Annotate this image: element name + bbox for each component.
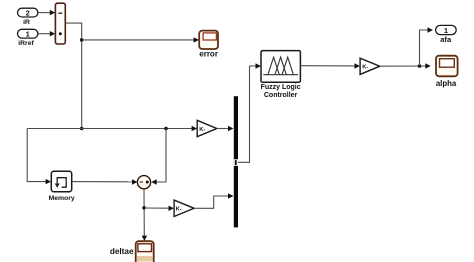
junction [164, 127, 168, 131]
svg-text:Memory: Memory [49, 195, 75, 202]
wire Gain2 to Mux [194, 193, 233, 208]
wire Sum1 output down to deltae [142, 189, 147, 241]
svg-text:K-: K- [176, 207, 182, 213]
wire down to Memory [27, 129, 51, 185]
scope error [199, 31, 218, 49]
wire Mux to Fuzzy Logic Controller [238, 63, 261, 162]
wire iR to Add [38, 10, 55, 15]
svg-text:Fuzzy Logic: Fuzzy Logic [261, 84, 301, 91]
wire iRref to Add [38, 31, 55, 36]
input port 2 (iR) [18, 8, 38, 17]
junction [80, 127, 84, 131]
block Fuzzy Logic Controller [261, 51, 300, 83]
gain Gain3 [360, 58, 380, 74]
wire Memory to Sum1 [72, 179, 137, 184]
wire Gain1 to Mux [217, 126, 234, 131]
svg-text:Controller: Controller [264, 92, 298, 99]
svg-text:1: 1 [444, 26, 448, 35]
wire main horizontal to Gain1 [27, 126, 197, 131]
wire FLC to Gain3 [300, 63, 360, 68]
wire down to Sum1 right input [151, 129, 166, 185]
wire to error scope [82, 37, 199, 42]
svg-text:K-: K- [199, 127, 205, 133]
block Memory [51, 171, 71, 191]
wire Add output [65, 23, 81, 128]
svg-text:alpha: alpha [436, 79, 457, 88]
wire up to afa port [420, 27, 433, 66]
svg-text:afa: afa [440, 35, 452, 44]
svg-text:K-: K- [362, 65, 368, 71]
input port 1 (iRref) [18, 29, 38, 38]
sum block Add [55, 3, 65, 44]
gain Gain1 [197, 120, 217, 136]
junction [142, 206, 146, 210]
scope deltae [136, 241, 154, 262]
label Fuzzy Logic Controller [261, 84, 301, 99]
scope alpha [436, 56, 458, 77]
svg-text:deltae: deltae [110, 247, 134, 256]
wire to Gain2 [144, 206, 174, 211]
mux Mux [234, 96, 238, 227]
junction [418, 64, 422, 68]
svg-text:1: 1 [26, 30, 30, 39]
svg-text:iRref: iRref [18, 40, 34, 47]
output port 1 (afa) [436, 25, 457, 35]
svg-text:error: error [199, 50, 218, 59]
svg-text:2: 2 [26, 8, 30, 17]
gain Gain2 [174, 200, 194, 216]
svg-text:iR: iR [23, 19, 30, 26]
wire Gain3 to alpha scope [380, 63, 431, 68]
junction [80, 38, 84, 42]
sum block Sum1 [137, 176, 150, 189]
